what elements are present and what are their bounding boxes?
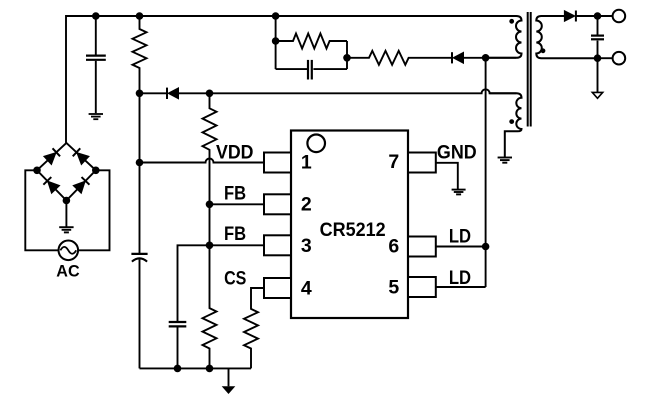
wire LD pin5 — [436, 286, 486, 288]
capacitor C5 output — [591, 16, 604, 58]
wire FB pin3 — [210, 244, 265, 246]
resistor R3 clamp — [347, 51, 451, 65]
svg-text:5: 5 — [388, 277, 399, 299]
node snubber out — [343, 54, 351, 62]
node output bottom — [594, 54, 602, 62]
bridge rectifier diamond — [37, 143, 96, 201]
diode D2 clamp — [452, 52, 486, 63]
diode D3 output rectifier — [564, 11, 612, 22]
capacitor C4 — [169, 322, 187, 368]
transformer T1 aux dot — [509, 119, 514, 124]
capacitor C3 VDD polarized — [131, 163, 147, 369]
node FB3 — [206, 242, 214, 250]
ground G2 below bridge — [59, 201, 73, 233]
node VDD — [136, 159, 144, 167]
node snubber R tap — [272, 37, 280, 45]
node bridge bottom — [63, 197, 71, 205]
node VDD diode — [136, 90, 144, 98]
svg-text:FB: FB — [224, 182, 246, 204]
node output top — [594, 12, 602, 20]
svg-text:AC: AC — [56, 262, 79, 281]
wire FB filter branch — [178, 245, 210, 321]
transformer T1 aux winding — [490, 93, 522, 157]
node switch — [482, 54, 490, 62]
ground G1 — [89, 114, 103, 119]
pin 5 box — [408, 277, 436, 297]
pin 1 box — [264, 153, 291, 173]
svg-text:CS: CS — [224, 268, 246, 290]
transformer T1 primary dot — [509, 19, 514, 24]
svg-text:2: 2 — [301, 194, 312, 216]
bridge diode D5 — [73, 148, 89, 164]
transformer T1 primary — [486, 16, 522, 58]
resistor R2 snubber — [276, 34, 347, 49]
capacitor C2 snubber — [276, 60, 347, 80]
wire VDD to pin1 with hop — [140, 159, 265, 163]
terminal J2 — [613, 52, 626, 65]
svg-text:VDD: VDD — [216, 141, 254, 163]
IC U1 pin1 marker — [307, 135, 325, 153]
pin 6 box — [408, 237, 436, 257]
bridge diode D7 — [73, 177, 89, 193]
node rail R5 — [206, 365, 214, 373]
svg-text:CR5212: CR5212 — [320, 219, 386, 241]
resistor R5 divider lower — [203, 245, 217, 368]
pin 7 box — [408, 153, 436, 173]
wire FB vertical — [209, 163, 211, 246]
node aux feed / R4 — [206, 90, 214, 98]
wire VDD node vertical — [139, 93, 141, 162]
terminal J1 — [613, 10, 626, 23]
wire output bottom to terminal — [598, 57, 613, 59]
pin 3 box — [264, 235, 291, 255]
ground G5 signal — [223, 368, 234, 393]
wire bottom rail — [140, 367, 252, 369]
resistor R4 divider upper — [203, 93, 217, 162]
node FB2 — [206, 201, 214, 209]
wire LD pin6 — [436, 246, 486, 248]
wire GND pin to ground — [436, 163, 458, 189]
svg-text:1: 1 — [301, 151, 312, 173]
ground G3 — [452, 190, 466, 195]
wire FB pin2 — [210, 203, 265, 205]
pin 2 box — [264, 194, 291, 214]
svg-text:LD: LD — [449, 267, 471, 289]
transformer T1 secondary dot — [541, 48, 546, 53]
svg-text:LD: LD — [449, 226, 471, 248]
wire top rail — [66, 16, 516, 143]
svg-text:GND: GND — [437, 142, 477, 164]
ground G6 output — [592, 58, 602, 98]
wire CS and resistor R6 — [244, 288, 264, 368]
node rail C4 — [174, 365, 182, 373]
node LD — [482, 243, 490, 251]
wire switch node to primary — [486, 57, 517, 59]
IC U1 body — [291, 131, 408, 319]
snubber right bus — [346, 41, 348, 69]
resistor R1 — [133, 16, 147, 93]
AC source V1 — [59, 241, 79, 261]
svg-text:FB: FB — [224, 223, 246, 245]
node bridge right — [92, 167, 100, 175]
transformer T1 core — [527, 12, 529, 127]
diode D1 — [140, 88, 210, 99]
ground G4 aux — [498, 158, 512, 163]
node top rail / R1 — [136, 12, 144, 20]
svg-text:6: 6 — [388, 236, 399, 258]
wire AC right loop — [78, 170, 109, 250]
snubber left bus — [275, 16, 277, 69]
capacitor C1 — [86, 16, 106, 113]
transformer T1 secondary — [536, 16, 597, 58]
node bridge left — [33, 167, 41, 175]
bridge diode D4 — [44, 148, 60, 164]
node top rail / snubber — [272, 12, 280, 20]
svg-text:3: 3 — [301, 235, 312, 257]
bridge diode D6 — [43, 177, 59, 193]
wire switch node vertical — [485, 58, 487, 287]
pin 4 box — [264, 278, 291, 298]
wire aux winding feed with hop over switch node — [210, 89, 517, 93]
svg-text:4: 4 — [301, 277, 312, 299]
svg-text:7: 7 — [388, 151, 399, 173]
node top rail / C1 — [92, 12, 100, 20]
wire AC left loop — [25, 170, 58, 250]
